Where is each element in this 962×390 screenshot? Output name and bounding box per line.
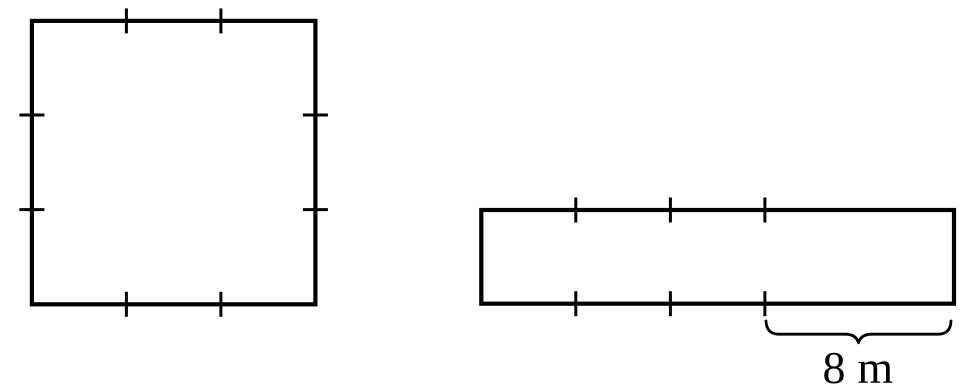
svg-text:8: 8 xyxy=(823,342,846,390)
svg-text:m: m xyxy=(857,342,893,390)
